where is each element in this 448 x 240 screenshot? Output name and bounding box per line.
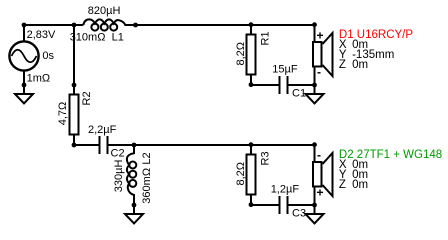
svg-text:2,83V: 2,83V [27, 29, 56, 41]
svg-text:-: - [317, 148, 321, 162]
svg-text:310mΩ: 310mΩ [70, 32, 106, 44]
svg-text:330µH: 330µH [113, 160, 125, 193]
svg-text:820µH: 820µH [88, 5, 121, 17]
svg-text:0m: 0m [352, 179, 368, 191]
svg-text:15µF: 15µF [272, 64, 298, 76]
svg-text:2,2µF: 2,2µF [88, 124, 117, 136]
svg-text:-: - [317, 65, 321, 79]
svg-text:1mΩ: 1mΩ [27, 72, 51, 84]
svg-text:+: + [317, 186, 324, 200]
svg-text:C1: C1 [292, 87, 306, 99]
svg-text:0s: 0s [42, 50, 54, 62]
svg-text:R1: R1 [259, 31, 271, 45]
svg-text:8,2Ω: 8,2Ω [235, 162, 247, 186]
svg-text:Z: Z [339, 179, 346, 191]
svg-text:C3: C3 [292, 207, 306, 219]
svg-text:C2: C2 [111, 147, 125, 159]
svg-text:360mΩ: 360mΩ [141, 168, 153, 204]
svg-text:L1: L1 [112, 32, 124, 44]
svg-text:R3: R3 [259, 151, 271, 165]
svg-text:8,2Ω: 8,2Ω [235, 42, 247, 66]
svg-text:0m: 0m [352, 59, 368, 71]
svg-text:Z: Z [339, 59, 346, 71]
svg-text:+: + [317, 29, 324, 43]
svg-text:R2: R2 [81, 91, 93, 105]
svg-text:4,7Ω: 4,7Ω [57, 102, 69, 126]
svg-text:1,2µF: 1,2µF [271, 184, 300, 196]
svg-text:L2: L2 [141, 152, 153, 164]
svg-text:27TF1 + WG148: 27TF1 + WG148 [357, 149, 442, 161]
